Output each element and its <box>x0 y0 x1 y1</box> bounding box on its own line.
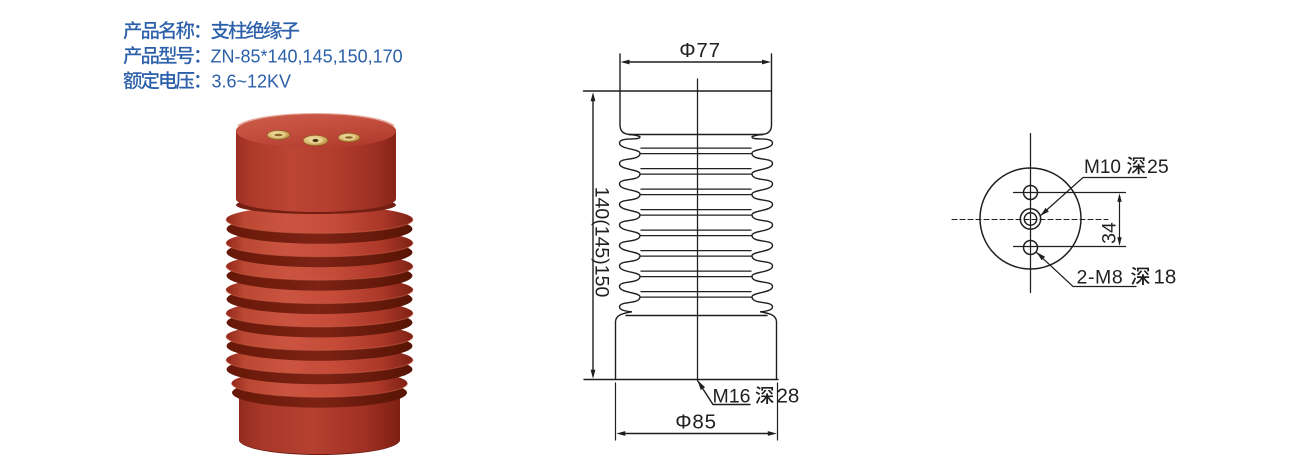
svg-text:M10: M10 <box>1084 157 1121 178</box>
svg-text:18: 18 <box>1154 266 1177 289</box>
svg-text:Φ77: Φ77 <box>679 39 721 62</box>
svg-text:140(145)150: 140(145)150 <box>591 187 613 298</box>
svg-text:M16: M16 <box>713 386 751 408</box>
svg-text:2-M8: 2-M8 <box>1077 267 1124 289</box>
svg-text:ZN-85*140,145,150,170: ZN-85*140,145,150,170 <box>211 47 403 67</box>
svg-text:Φ85: Φ85 <box>675 411 717 434</box>
svg-text:28: 28 <box>777 385 800 408</box>
svg-text:25: 25 <box>1147 156 1169 178</box>
svg-text:34: 34 <box>1099 222 1121 244</box>
svg-text:3.6~12KV: 3.6~12KV <box>212 72 292 92</box>
